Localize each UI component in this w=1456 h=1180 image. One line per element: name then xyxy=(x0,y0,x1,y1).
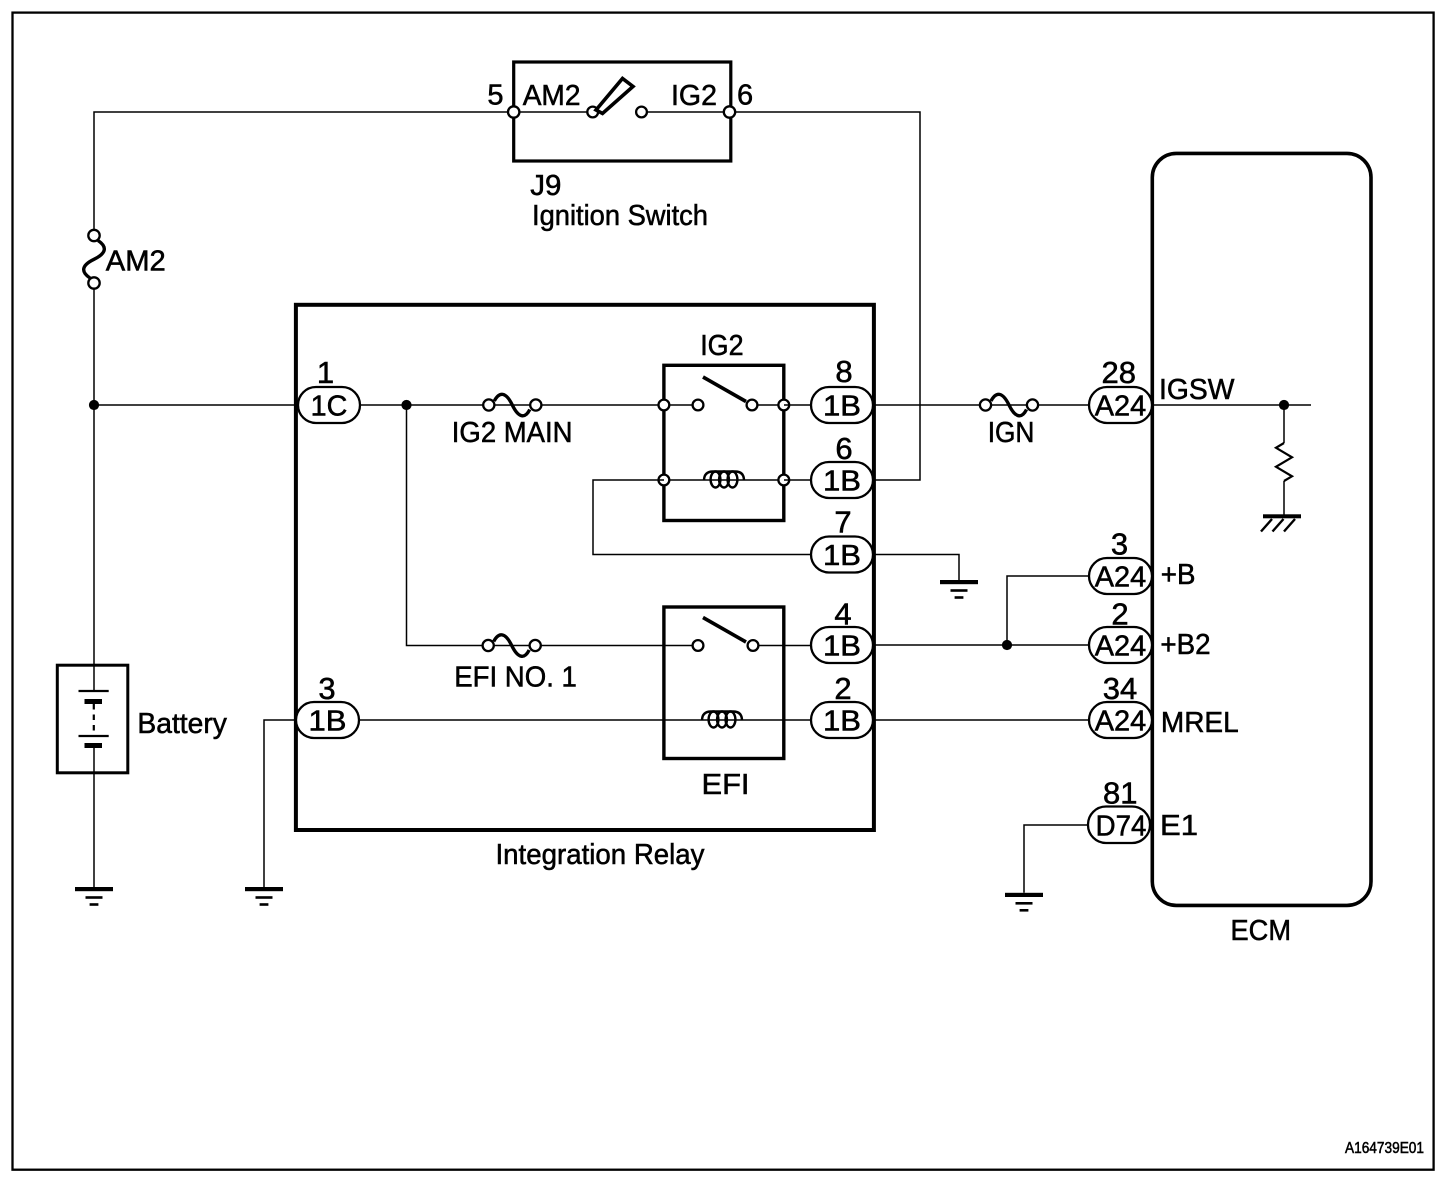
wire pin 7 to ground xyxy=(873,555,959,581)
svg-text:2: 2 xyxy=(1111,597,1128,632)
battery plate short thick bottom xyxy=(85,743,103,748)
svg-text:7: 7 xyxy=(834,505,851,540)
EFI relay contact right xyxy=(748,640,759,651)
EFI switch arm xyxy=(703,618,746,643)
svg-text:IGSW: IGSW xyxy=(1159,374,1235,406)
wire pin 8 to IGN fuse to ECM pin 28 xyxy=(873,404,1089,406)
connector oval A24 pin 2 xyxy=(1089,627,1152,663)
battery plate long bottom xyxy=(79,735,109,737)
svg-text:AM2: AM2 xyxy=(523,80,581,112)
svg-text:AM2: AM2 xyxy=(106,246,166,278)
wire EFI coil row from pin 3 xyxy=(358,719,815,721)
svg-text:1B: 1B xyxy=(823,631,861,663)
svg-text:IG2 MAIN: IG2 MAIN xyxy=(452,417,573,449)
wire branch down to EFI NO.1 fuse xyxy=(407,405,664,646)
connector oval A24 pin 28 xyxy=(1089,387,1152,423)
wire AM2 fuse to battery xyxy=(93,289,95,691)
ground relay pin 3 xyxy=(245,887,283,906)
svg-text:A24: A24 xyxy=(1095,631,1147,663)
ground E1 xyxy=(1005,893,1043,912)
svg-text:1B: 1B xyxy=(823,706,861,738)
wire IG2 coil to pin 6 xyxy=(784,479,815,481)
switch contact right xyxy=(636,107,647,118)
EFI relay contact left xyxy=(693,640,704,651)
node IG2 MAIN branch junction xyxy=(401,400,411,410)
connector oval 1B pin 8 xyxy=(811,387,873,423)
svg-text:IG2: IG2 xyxy=(700,330,743,362)
connector oval 1B pin 2 xyxy=(811,702,873,738)
connector oval 1B pin 4 xyxy=(811,627,873,663)
battery plate long top xyxy=(79,690,109,692)
fuse IG2 MAIN xyxy=(483,394,541,415)
svg-text:IGN: IGN xyxy=(988,417,1035,449)
svg-text:+B: +B xyxy=(1161,559,1196,591)
svg-text:1: 1 xyxy=(317,355,334,390)
wire pin 4 to ECM +B2 xyxy=(873,644,1089,646)
wire EFI contact row xyxy=(663,645,694,647)
switch contact left xyxy=(587,107,598,118)
wire down to resistor xyxy=(1283,405,1285,443)
svg-text:A24: A24 xyxy=(1095,562,1147,594)
battery cell dashed link xyxy=(93,704,95,734)
wire resistor to chassis ground xyxy=(1283,481,1285,515)
svg-text:1B: 1B xyxy=(823,540,861,572)
relay EFI box xyxy=(664,607,784,759)
fuse IGN xyxy=(980,394,1038,415)
wire IG2 contact row xyxy=(664,404,694,406)
svg-text:+B2: +B2 xyxy=(1160,629,1210,661)
svg-text:3: 3 xyxy=(318,671,335,706)
terminal 5 xyxy=(508,106,519,117)
svg-text:1B: 1B xyxy=(823,466,861,498)
svg-text:EFI: EFI xyxy=(702,769,750,801)
IG2 coil edge node right xyxy=(778,475,789,486)
IG2 relay edge node left xyxy=(659,400,670,411)
IG2 relay edge node right xyxy=(778,400,789,411)
connector oval 1B pin 6 xyxy=(811,462,873,498)
wire E1 to ground xyxy=(1024,825,1088,893)
IG2 coil edge node left xyxy=(659,475,670,486)
svg-text:IG2: IG2 xyxy=(671,80,717,112)
wire IGSW inside ECM xyxy=(1152,404,1311,406)
IG2 switch arm xyxy=(703,377,746,402)
svg-text:81: 81 xyxy=(1103,776,1137,811)
battery B box xyxy=(57,665,128,773)
node IGSW junction xyxy=(1279,400,1289,410)
svg-text:A164739E01: A164739E01 xyxy=(1345,1140,1424,1157)
connector oval 1C pin 1 xyxy=(298,387,360,423)
svg-text:EFI NO. 1: EFI NO. 1 xyxy=(454,662,577,694)
svg-text:MREL: MREL xyxy=(1161,707,1239,739)
fuse AM2 xyxy=(84,241,105,279)
coil EFI xyxy=(702,712,742,728)
relay IG2 box xyxy=(664,365,784,520)
svg-text:1B: 1B xyxy=(823,391,861,423)
svg-text:1C: 1C xyxy=(311,391,348,423)
svg-text:Integration Relay: Integration Relay xyxy=(496,839,705,871)
chassis ground IGSW xyxy=(1261,514,1301,531)
fuse EFI NO. 1 xyxy=(483,635,541,656)
svg-text:3: 3 xyxy=(1111,527,1128,562)
node battery feed junction xyxy=(89,400,99,410)
connector oval D74 pin 81 xyxy=(1088,807,1150,844)
svg-text:34: 34 xyxy=(1103,671,1137,706)
svg-text:6: 6 xyxy=(737,80,753,112)
wire right contact to terminal 6 xyxy=(646,111,725,113)
wire relay pin 1 to IG2 relay xyxy=(360,404,664,406)
svg-text:1B: 1B xyxy=(309,706,347,738)
svg-text:E1: E1 xyxy=(1160,810,1198,842)
wire battery to ground xyxy=(93,748,95,887)
svg-text:4: 4 xyxy=(834,597,851,632)
svg-text:Ignition Switch: Ignition Switch xyxy=(532,200,708,232)
svg-text:ECM: ECM xyxy=(1231,915,1292,947)
IG2 relay contact right xyxy=(747,400,758,411)
wire IG2 coil row xyxy=(664,479,784,481)
ECM box xyxy=(1152,153,1371,905)
wire IG2 coil to pin 7 xyxy=(593,480,815,555)
connector oval A24 pin 34 xyxy=(1089,702,1152,738)
node +B branch junction xyxy=(1002,640,1012,650)
wire pin 2 to ECM MREL xyxy=(873,719,1089,721)
battery plate short thick top xyxy=(85,699,103,704)
wire from ignition switch terminal 6 down to relay pin 6 xyxy=(735,112,920,480)
connector oval 1B pin 3 xyxy=(296,702,359,738)
ignition switch J9 box xyxy=(514,62,731,161)
svg-text:2: 2 xyxy=(834,671,851,706)
svg-text:8: 8 xyxy=(835,354,852,389)
coil IG2 xyxy=(704,472,744,488)
svg-text:5: 5 xyxy=(487,80,503,112)
svg-text:A24: A24 xyxy=(1095,391,1147,423)
wire junction up to ECM +B xyxy=(1007,576,1089,645)
connector oval 1B pin 7 xyxy=(811,537,873,573)
IG2 relay contact left xyxy=(693,400,704,411)
wire from AM2 fuse up to ignition switch terminal 5 xyxy=(94,112,507,230)
Integration Relay box xyxy=(296,305,874,830)
ground relay pin 7 xyxy=(940,580,978,599)
ignition switch lever xyxy=(596,79,633,114)
connector oval A24 pin 3 xyxy=(1089,558,1152,594)
terminal 6 xyxy=(724,106,735,117)
svg-text:28: 28 xyxy=(1101,355,1135,390)
wire IG2 relay to pin 8 xyxy=(784,404,815,406)
svg-text:Battery: Battery xyxy=(137,708,227,740)
svg-text:6: 6 xyxy=(835,431,852,466)
svg-text:J9: J9 xyxy=(530,170,561,202)
svg-text:A24: A24 xyxy=(1095,706,1147,738)
wire pin 3 to ground xyxy=(264,720,296,887)
wire terminal 5 to left contact xyxy=(519,111,588,113)
wire main feed to relay pin 1 xyxy=(94,404,298,406)
ground battery xyxy=(75,887,113,906)
resistor pull-down xyxy=(1276,443,1292,481)
svg-text:D74: D74 xyxy=(1096,811,1147,843)
